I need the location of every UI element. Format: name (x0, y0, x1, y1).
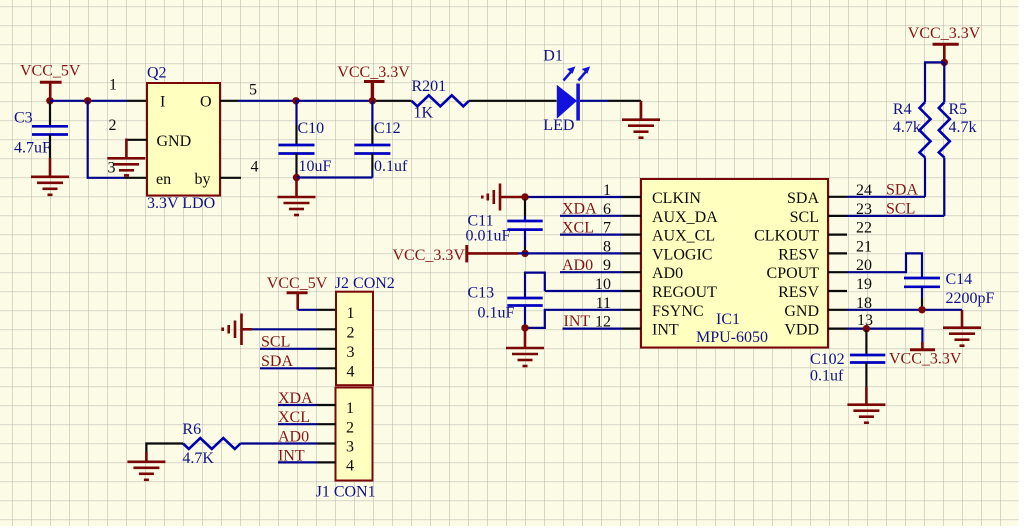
svg-text:2: 2 (346, 420, 354, 437)
svg-text:C14: C14 (946, 271, 973, 288)
capacitor C11 (507, 199, 542, 252)
svg-text:RESV: RESV (778, 246, 819, 263)
svg-text:VCC_3.3V: VCC_3.3V (889, 351, 962, 368)
svg-text:CLKOUT: CLKOUT (754, 228, 819, 245)
svg-text:FSYNC: FSYNC (652, 303, 704, 320)
pin 2 of Q2 (GND elbow) (126, 139, 147, 159)
svg-text:10uF: 10uF (299, 158, 332, 175)
junction D (C10 bottom / ground) (293, 174, 300, 181)
svg-text:VCC_3.3V: VCC_3.3V (908, 25, 981, 42)
power VCC_3.3V (VLOGIC) (393, 245, 519, 264)
capacitor C14 (904, 278, 940, 308)
pin 20 of IC (CPOUT) (828, 253, 922, 278)
power VCC_5V (top-left) (20, 63, 81, 101)
pin 6 of IC (XDA) (560, 215, 641, 217)
wire R5 bottom to SCL (943, 157, 945, 216)
wire LED cathode to ground (608, 100, 641, 102)
svg-text:R4: R4 (893, 101, 912, 118)
svg-text:0.1uf: 0.1uf (810, 368, 844, 385)
svg-text:INT: INT (652, 322, 679, 339)
svg-text:C3: C3 (14, 110, 33, 127)
wire VCC to R5 top (943, 62, 945, 102)
svg-text:1: 1 (346, 400, 354, 417)
pin 9 of IC (AD0) (560, 271, 641, 273)
wire C10 bottom to C12 bottom (297, 176, 373, 178)
svg-text:R5: R5 (949, 101, 968, 118)
resistor R4 (920, 102, 931, 157)
wire J1 pin 3 (AD0) (241, 442, 336, 444)
capacitor C10 (279, 101, 315, 174)
wire J1 pin 2 (XCL) (278, 423, 336, 425)
wire VLOGIC (518, 252, 623, 254)
svg-text:XCL: XCL (562, 219, 594, 236)
ground (C3) (31, 177, 69, 195)
wire SDA (pin 24 to R4) (828, 196, 925, 198)
capacitor C3 (32, 102, 68, 177)
pin 10 of IC (REGOUT) (623, 290, 642, 292)
svg-text:SDA: SDA (261, 353, 293, 370)
svg-text:LED: LED (543, 117, 574, 134)
wire J1 pin 4 (INT) (278, 461, 336, 463)
power VCC_3.3V (top-right) (908, 25, 981, 62)
svg-text:R6: R6 (182, 421, 201, 438)
pin 12 of IC (INT) (623, 328, 642, 330)
svg-text:5: 5 (249, 82, 257, 99)
junction B (en branch) (84, 97, 91, 104)
capacitor C13 (507, 273, 545, 328)
junction J (C14 bottom / GND wire) (918, 306, 925, 313)
pin 11 of IC (FSYNC) (623, 309, 642, 311)
ground (LED) (622, 101, 660, 138)
svg-text:19: 19 (856, 276, 872, 293)
svg-text:CLKIN: CLKIN (652, 190, 701, 207)
svg-text:AUX_DA: AUX_DA (652, 209, 718, 226)
wire J2 pin 4 (SDA) (260, 367, 336, 369)
svg-text:VCC_5V: VCC_5V (20, 63, 81, 80)
connector J2 box (336, 292, 373, 386)
svg-text:GND: GND (157, 133, 192, 150)
svg-text:R201: R201 (412, 78, 447, 95)
junction G (CLKIN / C11 top) (521, 193, 528, 200)
ground (pin 18) (943, 310, 981, 346)
capacitor C102 (850, 330, 885, 405)
svg-text:CPOUT: CPOUT (767, 265, 820, 282)
svg-text:4: 4 (347, 364, 355, 381)
svg-text:VDD: VDD (784, 322, 819, 339)
svg-text:4.7k: 4.7k (949, 119, 977, 136)
svg-text:IC1: IC1 (716, 311, 740, 328)
svg-text:3.3V LDO: 3.3V LDO (147, 195, 215, 212)
junction C (C10 node) (292, 97, 299, 104)
wire J1 pin 1 (XDA) (278, 404, 336, 406)
wire R4 bottom to SDA (924, 157, 926, 196)
resistor R5 (939, 102, 950, 157)
svg-text:2: 2 (347, 325, 355, 342)
junction I (C13 bottom / ground) (521, 324, 528, 331)
svg-text:4: 4 (346, 458, 354, 475)
pin 7 of IC (XCL) (560, 234, 641, 236)
capacitor C12 (354, 101, 390, 178)
wire pin5 to C10 node (238, 100, 296, 102)
wire VDD (pin 13) (828, 329, 922, 345)
wire VCC to R4 top (925, 62, 944, 102)
ground (R6) (127, 462, 165, 480)
wire SCL (pin 23 to R5) (828, 215, 944, 217)
svg-text:INT: INT (564, 313, 591, 330)
svg-text:REGOUT: REGOUT (652, 284, 717, 301)
wire FSYNC to C13 bottom (525, 310, 623, 328)
junction A (VCC_5V / C3) (46, 97, 53, 104)
svg-text:0.1uF: 0.1uF (478, 305, 515, 322)
svg-text:C102: C102 (810, 351, 845, 368)
svg-text:2: 2 (109, 117, 117, 134)
svg-text:0.1uf: 0.1uf (374, 158, 408, 175)
IC U1 MPU-6050 box (641, 179, 828, 348)
svg-text:3: 3 (108, 160, 116, 177)
svg-text:INT: INT (278, 447, 305, 464)
svg-text:3: 3 (347, 344, 355, 361)
svg-text:2200pF: 2200pF (946, 290, 995, 307)
junction H (VLOGIC / C11 bottom) (521, 250, 528, 257)
svg-text:MPU-6050: MPU-6050 (696, 329, 768, 346)
svg-text:I: I (160, 93, 165, 110)
svg-text:1: 1 (109, 77, 117, 94)
svg-text:D1: D1 (543, 48, 563, 65)
svg-text:4.7K: 4.7K (182, 450, 214, 467)
wire junction B down to en pin (88, 101, 124, 178)
junction E (C12 / VCC_3.3V node) (369, 97, 376, 104)
ground (rotated, J2 pin 2) (223, 314, 252, 346)
svg-text:SDA: SDA (787, 190, 819, 207)
wire R201 to LED anode (469, 100, 557, 102)
svg-text:AD0: AD0 (652, 265, 683, 282)
wire VCC_5V to J2 pin 1 (298, 309, 336, 311)
svg-text:3: 3 (346, 439, 354, 456)
wire J2 pin 2 to ground (252, 328, 336, 330)
svg-text:XDA: XDA (278, 390, 313, 407)
pin 8 of IC (VLOGIC) (623, 252, 642, 254)
svg-text:en: en (156, 171, 171, 188)
wire R6 to ground elbow (146, 442, 183, 461)
resistor R201 (412, 95, 470, 106)
svg-text:C10: C10 (298, 120, 325, 137)
resistor R6 (183, 438, 241, 449)
pin 1 of IC (CLKIN) (623, 196, 642, 198)
wire REGOUT to C13 (545, 290, 623, 292)
wire VCC_5V to Q2 pin1 (50, 100, 127, 102)
svg-text:J2 CON2: J2 CON2 (335, 275, 395, 292)
connector J1 box (336, 388, 373, 481)
svg-text:Q2: Q2 (147, 65, 167, 82)
svg-text:by: by (195, 171, 211, 188)
power VCC_5V (J2) (267, 275, 328, 310)
svg-text:VCC_5V: VCC_5V (267, 275, 328, 292)
pin 4 of Q2 (by stub) (220, 177, 241, 179)
wire C10 node to C12 node (296, 100, 372, 102)
ground (Q2 pin 2) (107, 158, 145, 175)
svg-text:AD0: AD0 (278, 429, 309, 446)
svg-text:AUX_CL: AUX_CL (652, 228, 715, 245)
power VCC_3.3V (VDD) (889, 342, 962, 368)
svg-text:4.7uF: 4.7uF (14, 140, 51, 157)
svg-text:XCL: XCL (278, 409, 310, 426)
svg-text:J1 CON1: J1 CON1 (316, 484, 376, 501)
wire INT (563, 328, 623, 330)
wire GND (pin 18) (828, 309, 962, 311)
ground (rotated, CLKIN) (482, 184, 525, 211)
wire CLKIN to C11 node (525, 196, 623, 198)
svg-text:SCL: SCL (886, 201, 915, 218)
svg-text:C13: C13 (468, 285, 495, 302)
svg-text:SCL: SCL (790, 209, 819, 226)
wire J2 pin 3 (SCL) (260, 348, 336, 350)
svg-text:XDA: XDA (562, 201, 597, 218)
svg-text:21: 21 (856, 238, 872, 255)
svg-text:C12: C12 (374, 120, 401, 137)
ground (C10) (278, 178, 316, 216)
power VCC_3.3V (top-middle) (337, 64, 410, 101)
pin 21 of IC (stub) (828, 252, 847, 254)
svg-text:AD0: AD0 (562, 257, 593, 274)
LED D1 (557, 66, 608, 120)
pin 22 of IC (stub) (828, 234, 847, 236)
svg-text:SDA: SDA (886, 182, 918, 199)
svg-text:GND: GND (784, 303, 819, 320)
ground (C102) (847, 405, 885, 423)
pin 5 of Q2 (220, 100, 238, 102)
pin 19 of IC (stub) (828, 290, 847, 292)
pin 3 of Q2 (en) (124, 177, 147, 179)
svg-text:VCC_3.3V: VCC_3.3V (393, 247, 466, 264)
svg-text:4: 4 (251, 159, 259, 176)
svg-text:0.01uF: 0.01uF (466, 228, 511, 245)
svg-text:1K: 1K (414, 105, 434, 122)
junction F (R4/R5 top) (941, 59, 948, 66)
svg-text:SCL: SCL (261, 334, 290, 351)
regulator Q2 box (147, 83, 220, 196)
svg-text:VLOGIC: VLOGIC (652, 246, 712, 263)
svg-text:RESV: RESV (778, 284, 819, 301)
pin 1 of Q2 (127, 100, 147, 102)
svg-text:O: O (200, 93, 212, 110)
ground (C13) (506, 328, 544, 366)
svg-text:VCC_3.3V: VCC_3.3V (337, 64, 410, 81)
junction K (C102 / VDD wire) (863, 325, 870, 332)
svg-text:4.7k: 4.7k (893, 119, 921, 136)
svg-text:1: 1 (347, 305, 355, 322)
svg-text:22: 22 (856, 220, 872, 237)
wire C12 node to R201 (376, 100, 412, 102)
